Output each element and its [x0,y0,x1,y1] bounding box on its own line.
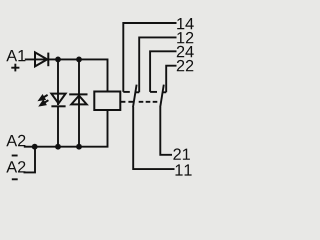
node dot top bus / LED branch [55,57,61,63]
terminal label 12 [177,32,193,43]
wire lead terminal 14 [123,23,176,92]
terminal label 22 [177,60,194,71]
contact 1 NO fixed foot [123,91,130,93]
terminal label A1 [6,50,25,61]
mechanical link solid stub from coil [120,101,125,103]
wire top bus from diode to corner above coil [48,59,107,92]
LED indicator diode [51,94,65,107]
wire lead terminal 12 [139,37,176,92]
wire A1 to diode anode [25,58,49,60]
LED arrow 1 [40,95,48,100]
wire lead terminal 22 [166,66,176,93]
node dot suppressor branch on A2 bus [76,144,82,150]
contact 2 moving arm [160,85,164,108]
relay coil K [94,92,120,111]
contact 2 NC fixed foot [162,91,166,93]
node dot top bus / suppressor branch [76,57,82,63]
wire contact 2 common to terminal 21 [160,107,172,155]
wire suppressor branch upper [78,59,80,94]
terminal label 14 [177,18,194,29]
wire suppressor branch lower [78,96,80,147]
wire A2 to bus junction [24,146,35,148]
contact 2 NO fixed foot [150,91,157,93]
node dot LED branch on A2 bus [55,144,61,150]
wire coil bottom to A2 bus [35,110,108,147]
minus sign under first A2 [12,155,18,157]
terminal label 21 [173,148,190,159]
contact 1 moving arm [133,85,137,108]
plus sign under A1 [11,64,19,72]
wire LED branch lower [57,106,59,146]
terminal label 24 [177,46,194,57]
wire LED branch upper [57,59,59,105]
terminal label A2 (second) [6,161,25,172]
terminal label A2 (first) [6,135,25,146]
terminal label 11 [176,164,192,175]
wire lead terminal 24 [150,51,176,92]
minus sign under second A2 [12,178,18,180]
mechanical link dashed line to contacts [128,101,133,103]
contact 1 NC fixed foot [135,91,139,93]
suppressor diode (cathode bar on top) [69,94,87,104]
wire second A2 up to bus junction [24,147,36,173]
diode D1 (series polarity diode) [35,52,48,66]
wire contact 1 common to terminal 11 [133,107,174,169]
LED arrow 2 [40,100,48,105]
node dot A2 junction [32,144,38,150]
